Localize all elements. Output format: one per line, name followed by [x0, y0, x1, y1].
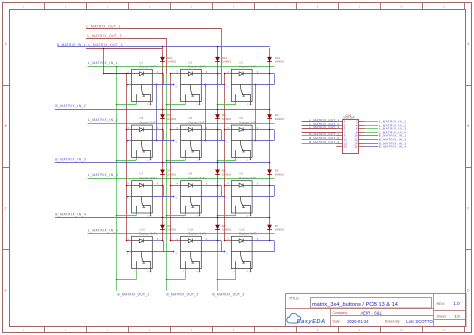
- pin5 stub U11: [199, 269, 201, 271]
- pin5 stub U5: [199, 157, 201, 159]
- wire B_MATRIX_IN_4: [55, 217, 270, 219]
- diode D1 1N4001: [160, 114, 165, 119]
- wire pin6 stub U3: [252, 73, 274, 75]
- net label B_MATRIX_IN_2 at CN1: [365, 139, 378, 141]
- wire pin6 stub U1: [152, 73, 163, 75]
- wire pin3 chain vertical col2: [205, 85, 207, 141]
- button U12 Digitast SdTL: [231, 236, 252, 268]
- junction B_OUT: [116, 279, 118, 281]
- wire C-leg U6: [274, 130, 276, 141]
- divider under REV: [434, 310, 467, 312]
- svg-text:D8: D8: [222, 224, 226, 228]
- EasyEDA logo: [287, 313, 301, 323]
- divider right column: [433, 294, 435, 327]
- svg-text:U7: U7: [139, 172, 143, 176]
- pin5 stub U12: [250, 269, 252, 271]
- button U9 Digitast SdTL: [231, 181, 252, 213]
- svg-text:1N4001: 1N4001: [167, 228, 177, 232]
- wire pin4 feed vertical col3: [224, 74, 226, 241]
- svg-text:L_MATRIX_IN_2: L_MATRIX_IN_2: [88, 118, 118, 122]
- junction pin4: [170, 185, 172, 187]
- net label B_MATRIX_OUT_3 at CN1: [302, 143, 337, 145]
- pin5 end dot: [250, 159, 252, 161]
- svg-text:REV:: REV:: [437, 302, 446, 306]
- wire under-box to B_OUT col3: [218, 279, 236, 281]
- pin1 end dot: [127, 140, 129, 142]
- pin1 end dot: [127, 196, 129, 198]
- wire under-box to B_OUT col3: [218, 160, 236, 162]
- net label L_MATRIX_IN_4 at CN1: [365, 132, 378, 134]
- wire pin7 CN1 unlabeled: [302, 132, 337, 134]
- svg-text:U6: U6: [239, 116, 243, 120]
- svg-text:B_MATRIX_IN_2: B_MATRIX_IN_2: [55, 104, 86, 108]
- diode D11 1N4001: [160, 57, 165, 62]
- svg-text:Digitast 5dTL: Digitast 5dTL: [189, 65, 207, 69]
- wire pin4 stub U9: [224, 185, 231, 187]
- wire pin2 drop U6: [235, 157, 237, 160]
- wire pin3 chain U3: [252, 84, 274, 86]
- junction: [103, 73, 105, 75]
- wire pin4 stub U8: [171, 185, 181, 187]
- wire C-leg U1: [163, 74, 165, 85]
- net label B_MATRIX_OUT_1 at CN1: [302, 135, 337, 137]
- junction pin6/diode: [269, 185, 271, 187]
- svg-text:EasyEDA: EasyEDA: [297, 319, 326, 325]
- junction pin4: [170, 129, 172, 131]
- svg-text:B_MATRIX_OUT_3: B_MATRIX_OUT_3: [213, 292, 245, 296]
- net label B_MATRIX_IN_4 at CN1: [365, 146, 378, 148]
- net label L_MATRIX_IN_2 at CN1: [365, 125, 378, 127]
- wire pin2 drop U8: [185, 213, 187, 216]
- junction B_IN x diode column: [162, 162, 164, 164]
- pin5 end dot: [199, 159, 201, 161]
- junction pin4: [170, 240, 172, 242]
- svg-text:Digitast 5dTL: Digitast 5dTL: [239, 121, 257, 125]
- wire C-leg U8: [221, 185, 223, 196]
- svg-text:Digitast 5dTL: Digitast 5dTL: [239, 65, 257, 69]
- pin5 end dot: [150, 215, 152, 217]
- svg-text:U9: U9: [239, 172, 243, 176]
- wire B_MATRIX_IN_1: [58, 46, 270, 48]
- svg-text:U4: U4: [139, 116, 143, 120]
- button U10 Digitast SdTL: [132, 236, 153, 268]
- wire pin6 stub U5: [201, 129, 221, 131]
- wire under-box to B_OUT col2: [167, 279, 185, 281]
- svg-text:16: 16: [354, 145, 358, 149]
- wire pin4 stub U12: [224, 240, 231, 242]
- svg-text:Digitast 5dTL: Digitast 5dTL: [140, 121, 158, 125]
- pin 8 CN1: [359, 132, 365, 134]
- pin1 end: [224, 140, 226, 142]
- junction pin4: [224, 185, 226, 187]
- wire pin6 stub U7: [152, 185, 163, 187]
- junction B_IN x diode column: [162, 217, 164, 219]
- svg-text:TITLE:: TITLE:: [289, 296, 300, 300]
- divider company/date: [331, 315, 434, 317]
- wire pin1 stub U10: [127, 251, 132, 253]
- svg-text:D13: D13: [275, 56, 281, 60]
- svg-text:B: B: [467, 124, 469, 128]
- svg-text:Digitast 5dTL: Digitast 5dTL: [189, 176, 207, 180]
- pin5 end dot: [250, 215, 252, 217]
- wire pin2 drop U5: [185, 157, 187, 160]
- junction pin3 chain: [255, 84, 257, 86]
- wire C-leg U10: [163, 241, 165, 252]
- wire C-leg U2: [221, 74, 223, 85]
- divider logo cell: [330, 308, 332, 327]
- pin5 stub U1: [150, 102, 152, 104]
- net label L_MATRIX_IN_3 at CN1: [365, 128, 378, 130]
- wire under-box to B_OUT col3: [218, 215, 236, 217]
- junction pin6/diode: [269, 240, 271, 242]
- diode D3 1N4001: [267, 114, 272, 119]
- pin5 stub U8: [199, 213, 201, 215]
- pin 12 CN1: [359, 139, 365, 141]
- wire L_MATRIX_OUT_2 drop: [166, 38, 168, 74]
- junction pin6/diode: [217, 73, 219, 75]
- wire pin2 drop U9: [235, 213, 237, 216]
- button U7 Digitast SdTL: [132, 181, 153, 213]
- junction pin3 chain: [156, 84, 158, 86]
- pin 14 CN1: [359, 143, 365, 145]
- junction B_IN x diode column: [217, 162, 219, 164]
- wire diode column vertical col3: [269, 48, 271, 241]
- wire under-box to B_OUT col3: [218, 104, 236, 106]
- wire pin1 stub U7: [127, 196, 132, 198]
- pin 1 CN1: [336, 121, 342, 123]
- wire pin3 chain U2: [201, 84, 224, 86]
- wire under-box to B_OUT col1: [116, 160, 136, 162]
- svg-text:L_MATRIX_OUT_3: L_MATRIX_OUT_3: [310, 125, 340, 129]
- junction B_OUT: [217, 215, 219, 217]
- wire under-box to B_OUT col1: [116, 279, 136, 281]
- svg-text:1.0: 1.0: [454, 301, 461, 306]
- frame ruler ticks top/bottom: [44, 3, 46, 10]
- button U2 Digitast SdTL: [181, 69, 202, 101]
- button U8 Digitast SdTL: [181, 181, 202, 213]
- wire pin6 stub U12: [252, 240, 274, 242]
- svg-text:L_MATRIX_IN_4: L_MATRIX_IN_4: [88, 229, 118, 233]
- wire L_MATRIX_OUT_1 horizontal: [86, 28, 221, 30]
- junction pin4: [126, 185, 128, 187]
- wire pin2 drop U11: [185, 269, 187, 280]
- connector CN1 2020-16P: [343, 120, 359, 154]
- svg-text:Loïc SCOTTO: Loïc SCOTTO: [406, 319, 433, 324]
- wire C-leg U5: [221, 130, 223, 141]
- pin5 end dot: [250, 104, 252, 106]
- diode D4 1N4001: [160, 170, 165, 175]
- wire pin4 stub U4: [126, 129, 131, 131]
- wire C-leg U3: [274, 74, 276, 85]
- svg-text:D7: D7: [275, 224, 279, 228]
- wire pin4 stub U5: [171, 129, 181, 131]
- junction B_IN x diode column: [269, 162, 271, 164]
- wire L_MATRIX_IN_1: [88, 66, 275, 68]
- wire pin3 chain U8: [201, 196, 224, 198]
- svg-text:Date:: Date:: [333, 320, 341, 324]
- divider under Sheet: [434, 319, 467, 321]
- junction B_IN_1 x col2: [217, 46, 219, 48]
- junction pin6/diode: [162, 240, 164, 242]
- button U3 Digitast SdTL: [231, 69, 252, 101]
- wire L_MATRIX_IN_3: [88, 178, 275, 180]
- junction B_OUT: [116, 160, 118, 162]
- wire B_MATRIX_IN_3: [55, 162, 270, 164]
- net label L_MATRIX_OUT_3 at CN1: [302, 128, 337, 130]
- svg-text:1/1: 1/1: [455, 314, 461, 319]
- net label L_MATRIX_OUT_1 at CN1: [302, 121, 337, 123]
- junction B_IN x diode column: [162, 109, 164, 111]
- wire pin6 stub U9: [252, 185, 274, 187]
- wire pin3 chain U5: [201, 140, 224, 142]
- junction pin6/diode: [162, 73, 164, 75]
- svg-text:Sheet:: Sheet:: [437, 315, 447, 319]
- junction B_OUT: [116, 104, 118, 106]
- title text box: [311, 298, 432, 309]
- pin1 end: [224, 196, 226, 198]
- wire B_MATRIX_IN_2: [55, 109, 270, 111]
- wire pin4 stub U11: [171, 240, 181, 242]
- junction B_IN x diode column: [269, 217, 271, 219]
- svg-text:D3: D3: [275, 113, 279, 117]
- svg-text:Digitast 5dTL: Digitast 5dTL: [239, 176, 257, 180]
- pin5 end dot: [150, 104, 152, 106]
- junction pin4: [126, 73, 128, 75]
- svg-text:B_MATRIX_OUT_3: B_MATRIX_OUT_3: [309, 140, 339, 144]
- svg-text:AEIR - S&L: AEIR - S&L: [361, 311, 383, 316]
- junction B_IN x diode column: [269, 109, 271, 111]
- svg-text:U2: U2: [188, 60, 192, 64]
- diode D9 1N4001: [160, 225, 165, 230]
- pin 10 CN1: [359, 135, 365, 137]
- svg-text:B_MATRIX_IN_4: B_MATRIX_IN_4: [379, 145, 407, 149]
- svg-text:D5: D5: [222, 169, 226, 173]
- pin1 end dot: [127, 84, 129, 86]
- junction B_OUT: [166, 104, 168, 106]
- title block: [286, 294, 467, 327]
- junction pin4: [224, 73, 226, 75]
- junction pin3 chain: [156, 140, 158, 142]
- wire pin3 chain U9: [252, 196, 274, 198]
- svg-text:Digitast 5dTL: Digitast 5dTL: [140, 232, 158, 236]
- pin5 stub U2: [199, 102, 201, 104]
- junction pin4: [126, 240, 128, 242]
- svg-text:B: B: [5, 124, 7, 128]
- svg-text:Company:: Company:: [333, 311, 349, 315]
- wire pin6 stub U4: [152, 129, 163, 131]
- divider under title row: [286, 308, 434, 310]
- junction pin6/diode: [269, 129, 271, 131]
- svg-text:1N4001: 1N4001: [275, 228, 285, 232]
- svg-text:1N4001: 1N4001: [222, 228, 232, 232]
- pin1 end: [224, 251, 226, 253]
- wire pin2 drop U3: [235, 102, 237, 105]
- wire B_MATRIX_OUT_1 vertical: [116, 66, 118, 291]
- svg-text:U12: U12: [239, 227, 245, 231]
- wire L_MATRIX_OUT_3 horizontal: [86, 48, 162, 50]
- wire pin4 stub U3: [224, 73, 231, 75]
- svg-text:D2: D2: [222, 113, 226, 117]
- svg-text:B_MATRIX_IN_4: B_MATRIX_IN_4: [55, 213, 86, 217]
- pin5 end dot: [150, 271, 152, 273]
- diode D7 1N4001: [267, 225, 272, 230]
- svg-text:matrix_3x4_buttons / PCB 13 &: matrix_3x4_buttons / PCB 13 & 14: [312, 302, 398, 308]
- wire pin6 stub U6: [252, 129, 274, 131]
- svg-text:U3: U3: [239, 60, 243, 64]
- wire under-box to B_OUT col2: [167, 215, 185, 217]
- wire pin2 drop U2: [185, 102, 187, 105]
- svg-text:L_MATRIX_IN_1: L_MATRIX_IN_1: [88, 61, 118, 65]
- button U11 Digitast SdTL: [181, 236, 202, 268]
- svg-text:2020-01-24: 2020-01-24: [347, 319, 369, 324]
- junction B_OUT: [217, 104, 219, 106]
- pin1 end: [173, 196, 175, 198]
- svg-text:Digitast 5dTL: Digitast 5dTL: [189, 121, 207, 125]
- svg-text:Digitast 5dTL: Digitast 5dTL: [189, 232, 207, 236]
- wire pin2 drop U12: [235, 269, 237, 280]
- pin5 end dot: [199, 271, 201, 273]
- diode D8 1N4001: [215, 225, 220, 230]
- junction pin4: [224, 240, 226, 242]
- pin 7 CN1: [336, 132, 342, 134]
- pin5 end dot: [199, 104, 201, 106]
- wire pin2 drop U1: [136, 102, 138, 105]
- wire L_MATRIX_OUT_1 drop to U2 pin6 area: [221, 28, 223, 74]
- wire B_MATRIX_OUT_2 vertical: [166, 74, 168, 291]
- junction B_OUT: [166, 160, 168, 162]
- diode D13 1N4001: [267, 57, 272, 62]
- pin 6 CN1: [359, 128, 365, 130]
- junction pin6/diode: [217, 240, 219, 242]
- svg-text:B_MATRIX_OUT_1: B_MATRIX_OUT_1: [118, 292, 150, 296]
- net label B_MATRIX_IN_3 at CN1: [365, 143, 378, 145]
- wire pin3 chain U11: [201, 251, 224, 253]
- wire under-box to B_OUT col1: [116, 215, 136, 217]
- wire L_MATRIX_IN_4: [88, 233, 275, 235]
- wire B_IN_1 drop to U1 pin4 feed: [103, 48, 105, 74]
- svg-text:1N4001: 1N4001: [275, 60, 285, 64]
- junction B_OUT: [217, 279, 219, 281]
- wire diode column vertical col1: [162, 47, 164, 241]
- pin1 end dot: [127, 251, 129, 253]
- pin5 end dot: [250, 271, 252, 273]
- junction pin4: [170, 73, 172, 75]
- wire diode column vertical col2: [217, 47, 219, 241]
- svg-text:U11: U11: [188, 227, 194, 231]
- wire pin6 stub U10: [152, 240, 163, 242]
- junction B_OUT: [166, 279, 168, 281]
- button U6 Digitast SdTL: [231, 125, 252, 157]
- junction pin6/diode: [217, 129, 219, 131]
- svg-text:1N4001: 1N4001: [275, 117, 285, 121]
- junction pin4: [126, 129, 128, 131]
- svg-text:1N4001: 1N4001: [167, 117, 177, 121]
- svg-text:D12: D12: [222, 56, 228, 60]
- pin 3 CN1: [336, 125, 342, 127]
- svg-text:D11: D11: [167, 56, 172, 60]
- wire pin3 chain U12: [252, 251, 274, 253]
- button U4 Digitast SdTL: [132, 125, 153, 157]
- svg-text:1N4001: 1N4001: [167, 172, 177, 176]
- junction pin6/diode: [162, 129, 164, 131]
- svg-text:U8: U8: [188, 172, 192, 176]
- pin5 end dot: [150, 159, 152, 161]
- junction pin3 chain: [205, 84, 207, 86]
- wire pin4 stub U6: [224, 129, 231, 131]
- net label L_MATRIX_IN_1 at CN1: [365, 121, 378, 123]
- pin 5 CN1: [336, 128, 342, 130]
- junction L_IN_1/B_OUT_1: [116, 66, 118, 68]
- diode D12 1N4001: [215, 57, 220, 62]
- svg-text:L_MATRIX_IN_3: L_MATRIX_IN_3: [88, 173, 118, 177]
- junction B_OUT: [217, 160, 219, 162]
- wire pin4 feed vertical col1: [126, 74, 128, 241]
- diode D6 1N4001: [267, 170, 272, 175]
- wire pin6 stub U2: [201, 73, 221, 75]
- svg-text:U5: U5: [188, 116, 192, 120]
- junction: [103, 48, 105, 50]
- wire pin4 stub U2: [171, 73, 181, 75]
- wire pin6 stub U11: [201, 240, 221, 242]
- junction pin6/diode: [269, 73, 271, 75]
- pin 9 CN1: [336, 135, 342, 137]
- junction B_OUT: [116, 215, 118, 217]
- junction B_IN x diode column: [217, 217, 219, 219]
- pin5 stub U9: [250, 213, 252, 215]
- pin 11 CN1: [336, 139, 342, 141]
- wire L_MATRIX_OUT_2 horizontal: [86, 38, 167, 40]
- diode D5 1N4001: [215, 170, 220, 175]
- wire pin3 chain vertical col1: [156, 85, 158, 141]
- svg-text:D4: D4: [167, 169, 171, 173]
- svg-text:Digitast 5dTL: Digitast 5dTL: [140, 65, 158, 69]
- pin1 end: [173, 251, 175, 253]
- junction pin6/diode: [162, 185, 164, 187]
- button U1 Digitast SdTL: [132, 69, 153, 101]
- wire L_MATRIX_IN_2: [88, 123, 275, 125]
- wire pin6 stub U8: [201, 185, 221, 187]
- pin5 end dot: [199, 215, 201, 217]
- junction B_IN x diode column: [217, 109, 219, 111]
- wire pin4 stub U10: [126, 240, 131, 242]
- button U5 Digitast SdTL: [181, 125, 202, 157]
- wire pin3 chain U6: [252, 140, 274, 142]
- pin5 stub U3: [250, 102, 252, 104]
- net label B_MATRIX_OUT_2 at CN1: [302, 139, 337, 141]
- svg-text:L_MATRIX_OUT_1: L_MATRIX_OUT_1: [87, 24, 121, 28]
- pin1 end: [224, 84, 226, 86]
- junction pin4: [224, 129, 226, 131]
- svg-text:1N4001: 1N4001: [222, 172, 232, 176]
- diode D2 1N4001: [215, 114, 220, 119]
- svg-text:1N4001: 1N4001: [222, 117, 232, 121]
- frame ruler ticks left/right: [3, 85, 10, 87]
- wire under-box to B_OUT col2: [167, 160, 185, 162]
- svg-text:Digitast 5dTL: Digitast 5dTL: [239, 232, 257, 236]
- svg-text:1N4001: 1N4001: [167, 60, 177, 64]
- pin5 stub U6: [250, 157, 252, 159]
- net label B_MATRIX_IN_1 at CN1: [365, 135, 378, 137]
- svg-text:U10: U10: [139, 227, 145, 231]
- pin1 end: [173, 84, 175, 86]
- svg-text:1N4001: 1N4001: [275, 172, 285, 176]
- svg-text:Digitast 5dTL: Digitast 5dTL: [140, 176, 158, 180]
- wire C-leg U7: [163, 185, 165, 196]
- svg-text:1N4001: 1N4001: [222, 60, 232, 64]
- wire pin2 drop U10: [136, 269, 138, 280]
- svg-text:D6: D6: [275, 169, 279, 173]
- wire pin4 stub U7: [126, 185, 131, 187]
